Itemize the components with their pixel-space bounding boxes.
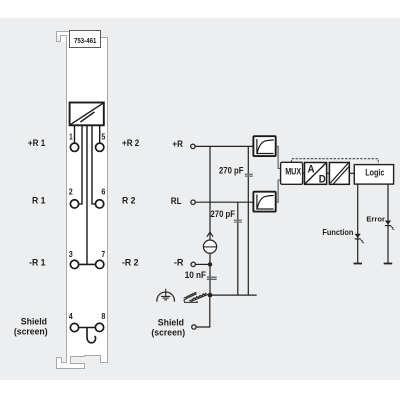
pin 2 bbox=[70, 200, 78, 208]
pin 4 bbox=[70, 323, 78, 331]
filter block F1 bbox=[253, 136, 275, 156]
svg-text:6: 6 bbox=[101, 186, 105, 196]
isolation barrier U4 box bbox=[329, 163, 349, 185]
svg-text:RL: RL bbox=[171, 196, 182, 207]
capacitor 270pF C1 plates bbox=[245, 174, 253, 176]
svg-text:1: 1 bbox=[69, 131, 73, 141]
pin 8 bbox=[95, 323, 103, 331]
svg-text:Logic: Logic bbox=[365, 167, 384, 177]
svg-text:Function: Function bbox=[322, 227, 353, 237]
earth dome symbol bbox=[157, 289, 175, 302]
wire A/D to isolator bbox=[327, 172, 330, 174]
wire filter2 to MUX bbox=[276, 180, 281, 202]
wire pin2 rail bbox=[79, 126, 82, 204]
Logic U5 box bbox=[354, 165, 393, 185]
svg-text:MUX: MUX bbox=[285, 166, 301, 176]
capacitor 10nF plates bbox=[207, 277, 217, 279]
wire +R to filter1 bbox=[195, 145, 253, 147]
wire pin1 rail bbox=[74, 126, 76, 143]
pin 3 bbox=[70, 260, 78, 268]
module outline right edge bbox=[101, 38, 108, 363]
A/D converter U3 box bbox=[305, 163, 327, 185]
dashed control line bbox=[292, 159, 379, 165]
wire shield terminal to bus bbox=[196, 295, 209, 327]
schematic: +R terminal bbox=[191, 144, 195, 148]
svg-text:+R: +R bbox=[172, 139, 183, 150]
svg-text:(screen): (screen) bbox=[14, 327, 48, 338]
transducer U1 box bbox=[70, 103, 104, 126]
capacitor 270pF C2 plates bbox=[234, 220, 242, 222]
pin 7 bbox=[96, 260, 104, 268]
pin 5 bbox=[96, 143, 104, 151]
svg-text:+R 2: +R 2 bbox=[122, 138, 139, 149]
rail RL branch with cap C2 bbox=[237, 202, 239, 295]
current direction arrowhead bbox=[207, 232, 213, 237]
wire pin6 rail bbox=[92, 126, 96, 204]
svg-text:5: 5 bbox=[101, 131, 105, 141]
svg-text:R 2: R 2 bbox=[122, 195, 136, 206]
Function LED ground bar bbox=[354, 263, 363, 265]
svg-text:R 1: R 1 bbox=[32, 195, 46, 206]
Function LED D1 bbox=[355, 234, 365, 243]
svg-text:7: 7 bbox=[101, 249, 105, 259]
schematic: -R terminal bbox=[191, 262, 195, 266]
svg-text:+R 1: +R 1 bbox=[28, 138, 46, 149]
svg-text:(screen): (screen) bbox=[151, 327, 185, 338]
transducer diagonal bbox=[70, 103, 103, 125]
wire -R to rail bbox=[196, 263, 210, 265]
svg-text:Error: Error bbox=[366, 215, 385, 224]
wire pins3-7 rail bbox=[86, 126, 88, 265]
svg-text:-R 1: -R 1 bbox=[29, 258, 46, 269]
shield bus bbox=[210, 294, 257, 296]
svg-text:D: D bbox=[319, 173, 326, 185]
svg-text:3: 3 bbox=[69, 249, 73, 259]
Error LED ground bar bbox=[384, 263, 393, 265]
svg-text:270 pF: 270 pF bbox=[211, 209, 236, 219]
filter block F2 bbox=[253, 192, 275, 212]
wire pin4 to pin8 bbox=[79, 327, 96, 329]
svg-text:-R: -R bbox=[174, 258, 184, 269]
rail +R branch with cap C1 bbox=[247, 146, 249, 295]
wire RL to filter2 bbox=[196, 201, 254, 203]
vertical rail from +R to current source bbox=[209, 146, 211, 240]
wire MUX to A/D bbox=[303, 172, 305, 174]
current source circle bbox=[203, 240, 216, 253]
wire isolator to Logic bbox=[349, 172, 354, 174]
svg-text:2: 2 bbox=[69, 186, 73, 196]
pin 1 bbox=[70, 143, 78, 151]
transducer second diagonal bbox=[80, 112, 94, 122]
label box 753-461 bbox=[70, 31, 101, 48]
rail below current source bbox=[209, 253, 211, 295]
din rail shield clamp icon bbox=[184, 292, 210, 302]
wire filter1 to MUX bbox=[276, 146, 281, 168]
junction -R bbox=[208, 262, 212, 266]
svg-text:270 pF: 270 pF bbox=[219, 166, 244, 176]
svg-text:A: A bbox=[308, 164, 315, 176]
schematic: Shield terminal bbox=[192, 325, 196, 329]
wire pin3 to pin7 bbox=[79, 263, 96, 265]
module outline bottom foot bbox=[57, 356, 108, 369]
Error LED rail bbox=[387, 184, 389, 263]
schematic: RL terminal bbox=[191, 200, 195, 204]
svg-text:753-461: 753-461 bbox=[74, 38, 97, 45]
pin 6 bbox=[95, 200, 103, 208]
svg-text:8: 8 bbox=[101, 311, 105, 321]
shield spring hook bbox=[87, 328, 96, 343]
junction shield bus bbox=[208, 293, 213, 298]
wire pin5 rail bbox=[99, 126, 101, 143]
svg-text:4: 4 bbox=[69, 311, 73, 321]
module outline left hook and left edge bbox=[57, 32, 67, 363]
svg-text:10 nF: 10 nF bbox=[185, 270, 207, 280]
MUX U2 box bbox=[281, 162, 303, 184]
Error LED D2 bbox=[385, 221, 395, 230]
svg-text:-R 2: -R 2 bbox=[122, 258, 138, 269]
module 753-461 body (white strip) bbox=[57, 32, 108, 369]
Function LED rail bbox=[357, 184, 359, 263]
module outline top edge bbox=[57, 31, 70, 33]
